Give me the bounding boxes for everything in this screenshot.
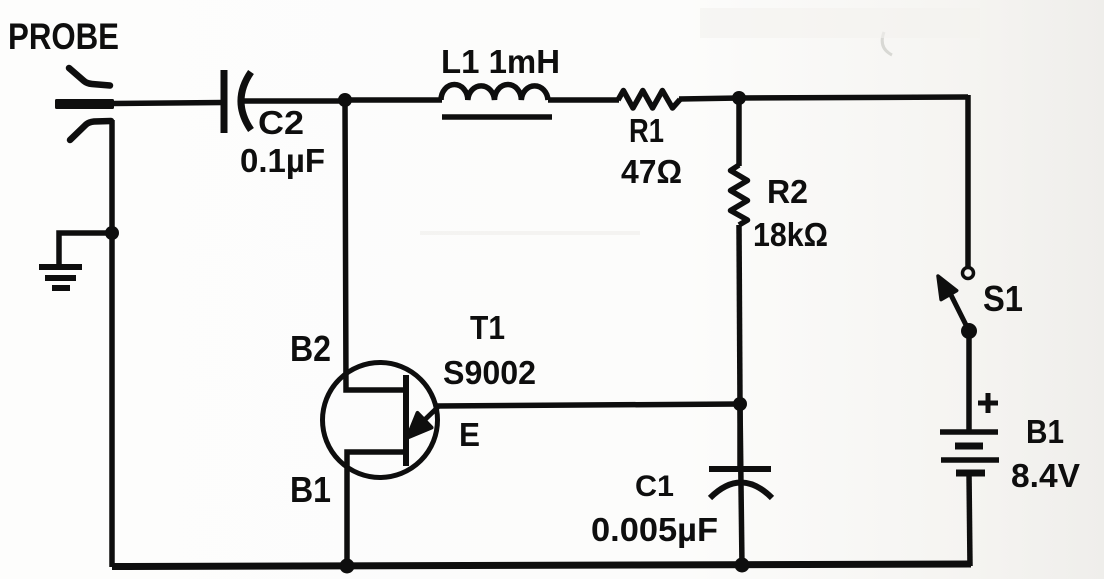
svg-text:C1: C1 <box>635 470 674 503</box>
ground bar 3 <box>52 285 70 291</box>
battery plus sign <box>978 393 998 413</box>
svg-text:L1 1mH: L1 1mH <box>441 43 560 80</box>
svg-text:R1: R1 <box>629 112 664 149</box>
capacitor C1 top plate <box>709 466 771 472</box>
capacitor C2 right plate <box>241 72 251 130</box>
svg-text:E: E <box>459 416 480 453</box>
wire node A to L1 <box>345 97 442 103</box>
svg-text:C2: C2 <box>258 104 304 141</box>
wire probe to C2 <box>112 103 224 104</box>
probe bottom grip <box>70 121 111 140</box>
svg-text:47Ω: 47Ω <box>621 153 682 190</box>
battery B1 plate 1 <box>940 429 998 435</box>
transistor T1 circle <box>323 363 438 478</box>
wire node B to R2 <box>736 98 742 166</box>
probe top grip <box>69 68 110 86</box>
node C junction dot <box>733 397 747 411</box>
svg-text:B1: B1 <box>290 469 331 510</box>
transistor T1 emitter line <box>412 407 438 432</box>
bottom rail wire <box>112 564 971 567</box>
switch S1 arm arrow <box>938 276 957 300</box>
svg-text:S1: S1 <box>983 278 1023 319</box>
switch S1 pivot dot <box>961 323 977 339</box>
junction dot C1 rail <box>735 558 750 573</box>
ground bar 2 <box>45 275 76 281</box>
inductor L1 <box>441 84 548 100</box>
capacitor C1 bottom plate <box>710 483 772 499</box>
wire C2 to node A <box>242 98 346 104</box>
battery B1 plate 4 <box>956 470 985 477</box>
wire node C to C1 <box>737 404 743 469</box>
wire top right corner down to S1 <box>965 95 971 267</box>
ground junction dot <box>105 226 119 240</box>
switch S1 arm <box>950 293 969 331</box>
svg-text:0.005µF: 0.005µF <box>591 511 718 548</box>
capacitor C2 left plate <box>221 70 228 133</box>
wire to ground <box>59 233 112 266</box>
svg-text:PROBE: PROBE <box>8 15 119 57</box>
svg-text:T1: T1 <box>470 309 505 346</box>
wire B1 lead to bottom rail <box>347 452 406 566</box>
wire B2 lead from node A <box>345 100 406 390</box>
switch S1 open contact <box>963 268 974 279</box>
resistor R1 <box>618 91 680 109</box>
probe tip bar <box>55 99 114 109</box>
battery B1 plate 2 <box>955 443 983 450</box>
wire C1 to bottom rail <box>740 404 742 566</box>
wire emitter to node C <box>437 404 740 406</box>
wire S1 to battery <box>966 331 972 432</box>
ground bar 1 <box>39 264 82 270</box>
junction dot B1 rail <box>340 559 355 574</box>
wire R1 to node B <box>679 98 740 99</box>
wire L1 to R1 <box>548 97 619 103</box>
svg-text:R2: R2 <box>767 173 808 210</box>
resistor R2 <box>731 165 748 225</box>
svg-text:18kΩ: 18kΩ <box>753 216 828 253</box>
svg-text:S9002: S9002 <box>443 354 536 391</box>
wire node B to top right corner <box>739 97 968 98</box>
node A junction dot <box>338 93 352 107</box>
node B junction dot <box>732 91 746 105</box>
svg-text:B1: B1 <box>1026 413 1064 450</box>
left rail wire <box>109 120 115 567</box>
wire R2 to node C <box>739 225 740 404</box>
transistor T1 emitter arrow <box>408 413 432 438</box>
svg-text:B2: B2 <box>290 328 331 369</box>
inductor L1 core bar <box>442 114 552 120</box>
battery B1 plate 3 <box>941 457 999 463</box>
svg-text:0.1µF: 0.1µF <box>240 142 325 179</box>
svg-text:8.4V: 8.4V <box>1011 457 1080 494</box>
wire battery to bottom rail <box>969 473 970 566</box>
transistor T1 bar <box>403 375 409 466</box>
